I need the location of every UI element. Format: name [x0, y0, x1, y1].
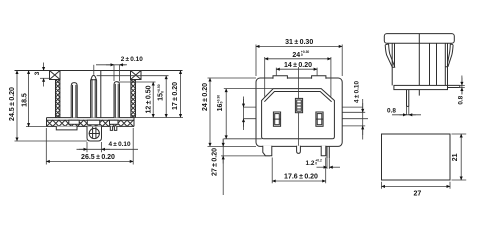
latch bump right [312, 76, 326, 79]
earth tail [297, 146, 301, 154]
line at outer pin centers [244, 118, 369, 120]
dim 2±0.10 (earth pin thickness) [93, 65, 95, 75]
screw tab [87, 126, 102, 141]
cap / flange rear [384, 34, 454, 44]
svg-text:24 ± 0.20: 24 ± 0.20 [202, 83, 209, 111]
svg-text:0: 0 [160, 91, 164, 93]
shroud outline (C14 opening) [262, 89, 335, 139]
left foot [56, 126, 77, 129]
screw hole [89, 128, 99, 138]
dim 16 +0.30/0 (left) [224, 89, 273, 139]
dim 12±0.50 [117, 81, 156, 83]
body verticals [392, 34, 447, 90]
left wall (hatched) [56, 80, 60, 118]
solder tail 1 [110, 126, 112, 130]
mounting bar [394, 85, 448, 89]
right pin (front) [316, 112, 323, 126]
short pin [418, 90, 420, 96]
svg-text:17 ± 0.20: 17 ± 0.20 [172, 82, 179, 110]
dim 0.8 (lip, right) [458, 85, 465, 87]
svg-text:0: 0 [220, 101, 224, 103]
dim 24 +0.30/0 [265, 57, 331, 97]
svg-text:0.8: 0.8 [458, 95, 465, 104]
svg-text:26.5 ± 0.20: 26.5 ± 0.20 [81, 154, 115, 161]
svg-text:14 ± 0.20: 14 ± 0.20 [284, 62, 312, 69]
dim 1.2 +0.2/0 [327, 158, 329, 169]
pin pedestal left [69, 120, 79, 124]
flange section box left [50, 71, 61, 80]
top face line [15, 70, 183, 72]
pin right (side) [114, 82, 120, 118]
svg-text:18.5: 18.5 [21, 93, 28, 107]
svg-text:12 ± 0.50: 12 ± 0.50 [146, 85, 153, 113]
pin pedestal right [110, 120, 119, 124]
flange section box right [131, 71, 142, 80]
dim 21 [452, 134, 467, 180]
dim 18.5 [28, 71, 30, 127]
svg-text:24.5 ± 0.20: 24.5 ± 0.20 [9, 87, 16, 121]
svg-text:27: 27 [414, 190, 422, 197]
right wall (hatched) [131, 80, 136, 118]
left leg [263, 146, 272, 156]
svg-text:0: 0 [315, 162, 317, 166]
dim 31±0.30 [256, 45, 342, 77]
lip right [448, 85, 460, 87]
left pin (front) [273, 112, 280, 126]
svg-text:4 ± 0.10: 4 ± 0.10 [108, 141, 131, 148]
svg-text:0: 0 [301, 53, 303, 57]
pin left (side) [71, 83, 77, 118]
svg-text:16: 16 [217, 104, 224, 112]
right leg [321, 146, 326, 156]
dim 27±0.20 (left bottom) [222, 139, 224, 195]
latch bump left [273, 76, 287, 79]
line at right pin top [316, 111, 365, 113]
svg-text:3: 3 [34, 71, 41, 75]
dim 4±0.10 (screw tab) [86, 142, 88, 152]
terminal blade right [327, 146, 329, 158]
dim 15 +0.50/0 [97, 75, 169, 77]
center line [297, 67, 299, 147]
dim 27 [382, 182, 451, 189]
dim 4±0.10 (right) [362, 99, 364, 140]
dim 17±0.20 [180, 71, 182, 118]
dim 0.8 (pin, bottom) [407, 106, 409, 115]
dim small (pin offset, left inner) [243, 97, 245, 131]
solder tail 2 [114, 126, 116, 130]
pin middle / earth (side, taller) [91, 75, 97, 117]
line at right pin bottom [323, 125, 366, 127]
earth pin (front) [295, 98, 302, 112]
svg-text:17.6 ± 0.20: 17.6 ± 0.20 [284, 174, 318, 181]
svg-text:21: 21 [452, 153, 459, 161]
base slab (hatched) [47, 118, 135, 127]
inner wall edge line [100, 71, 102, 118]
latch left [385, 44, 395, 67]
svg-text:31 ± 0.30: 31 ± 0.30 [285, 39, 313, 46]
shroud inner wall lines [264, 92, 331, 102]
dim 24.5±0.20 [16, 71, 18, 142]
pin pedestal middle [87, 120, 99, 125]
dim 26.5±0.20 [45, 128, 47, 165]
svg-text:15: 15 [158, 93, 165, 101]
svg-text:27 ± 0.20: 27 ± 0.20 [212, 148, 219, 176]
dim 24±0.20 (left) [208, 78, 257, 146]
latch right [445, 44, 453, 67]
svg-text:2 ± 0.10: 2 ± 0.10 [121, 56, 144, 63]
svg-text:0.8: 0.8 [387, 107, 396, 114]
pin below bar [407, 90, 409, 107]
svg-text:4 ± 0.10: 4 ± 0.10 [353, 81, 360, 104]
line through earth pin level [244, 106, 363, 108]
svg-text:24: 24 [292, 52, 300, 59]
svg-text:1.2: 1.2 [306, 160, 315, 167]
dim 14±0.20 [276, 68, 317, 76]
flange outline [256, 78, 342, 146]
dim 17.6±0.20 [272, 158, 326, 184]
cutout rectangle [382, 134, 451, 180]
dim 3 [40, 77, 50, 79]
